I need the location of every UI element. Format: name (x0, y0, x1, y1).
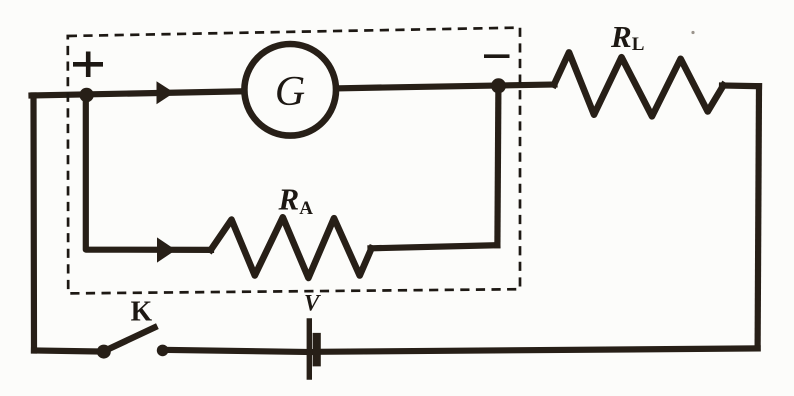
wire: right vertical side (758, 86, 759, 348)
scan speckle (691, 31, 694, 34)
node: + junction dot (79, 88, 93, 102)
label: - polarity (484, 54, 510, 58)
battery V short plate (313, 337, 321, 362)
galvanometer U1 circle (244, 44, 336, 136)
wire: bottom middle (switch to battery) (162, 350, 310, 352)
resistor RA zigzag (211, 217, 372, 278)
wire: riser up to - junction (497, 88, 498, 246)
svg-text:RA: RA (278, 181, 314, 219)
current arrow on R_A branch (157, 237, 176, 262)
node: - junction dot (491, 78, 506, 93)
battery V long plate (307, 321, 312, 377)
wire: left vertical side (30, 96, 37, 351)
wire: top-left horizontal (left corner to galvanometer) (32, 91, 243, 95)
node: switch left contact dot (97, 345, 111, 359)
label: + polarity (73, 52, 103, 78)
wire: bottom right (battery to right corner) (317, 348, 758, 351)
svg-text:V: V (304, 291, 321, 316)
resistor RL zigzag (554, 52, 724, 116)
svg-text:G: G (275, 69, 305, 115)
svg-text:RL: RL (610, 19, 644, 55)
wire: bottom left (left corner to switch) (34, 351, 104, 352)
svg-text:K: K (131, 295, 153, 327)
node: switch right contact dot (157, 345, 169, 357)
wire: inner drop from + junction down and right to R_A (86, 97, 211, 250)
dashed ammeter boundary box (68, 28, 520, 294)
wire: RL to top-right corner (722, 82, 759, 89)
wire: R_A right end to riser (371, 245, 498, 248)
current arrow on top wire (157, 81, 175, 104)
wire: galvanometer to right junction and on to R_L (339, 85, 555, 89)
switch K lever (107, 328, 155, 351)
